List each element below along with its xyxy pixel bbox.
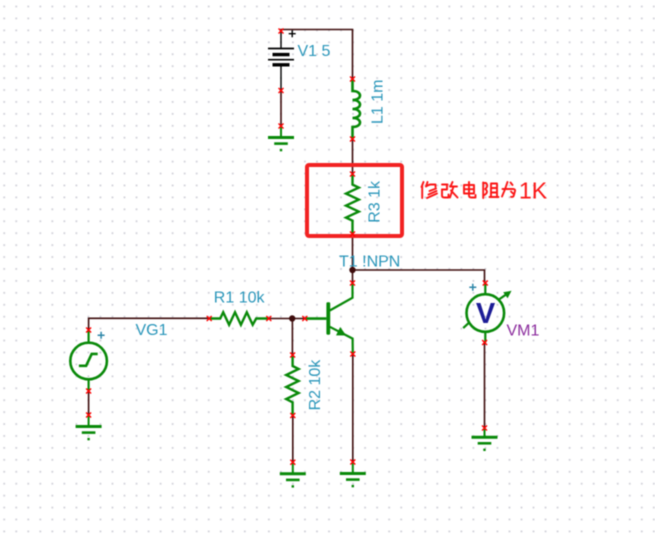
pin ground VM1 bbox=[482, 426, 487, 431]
char dian bbox=[464, 182, 476, 198]
svg-text:R1 10k: R1 10k bbox=[214, 290, 266, 307]
wire VM1 bottom to ground bbox=[484, 343, 486, 429]
battery V1 bbox=[268, 30, 296, 90]
char gai bbox=[442, 182, 458, 198]
svg-text:VG1: VG1 bbox=[136, 322, 168, 339]
pin ground V1 bbox=[279, 124, 284, 129]
ground below VG1 bbox=[76, 415, 102, 440]
pin R2 top bbox=[290, 353, 295, 358]
wire battery bottom to ground bbox=[280, 91, 282, 127]
resistor R1 bbox=[209, 312, 269, 325]
pin ground T1 bbox=[350, 460, 355, 465]
plus VM1 bbox=[469, 284, 476, 291]
svg-text:R2 10k: R2 10k bbox=[307, 359, 324, 411]
junction node base bbox=[289, 315, 295, 321]
pin VG1 bottom bbox=[86, 389, 91, 394]
wire node to R2 top bbox=[291, 319, 293, 356]
resistor R2 bbox=[286, 355, 298, 416]
pin V1 positive bbox=[279, 29, 284, 34]
pin R3 bottom bbox=[350, 232, 355, 237]
pin R2 bottom bbox=[290, 413, 295, 418]
pin ground VG1 bbox=[86, 413, 91, 418]
svg-text:T1 !NPN: T1 !NPN bbox=[339, 254, 400, 271]
ground below R2 bbox=[280, 462, 306, 487]
svg-text:V1 5: V1 5 bbox=[298, 43, 331, 60]
pin ground R2 bbox=[290, 460, 295, 465]
pin T1 base bbox=[302, 316, 307, 321]
pin R3 top bbox=[350, 172, 355, 177]
pin VG1 top bbox=[86, 328, 91, 333]
char zu bbox=[483, 183, 498, 199]
wire R2 bottom to ground bbox=[292, 416, 294, 463]
inductor L1 bbox=[353, 79, 361, 139]
wire R3 bottom to T1 collector bbox=[352, 234, 354, 283]
svg-text:1K: 1K bbox=[519, 178, 548, 204]
junction node collector bbox=[349, 267, 355, 273]
wire R1 right to T1 base bbox=[269, 318, 305, 320]
ground below T1 emitter bbox=[340, 462, 366, 487]
pin L1 bottom bbox=[350, 137, 355, 142]
ground below VM1 bbox=[472, 428, 498, 451]
svg-text:R3 1k: R3 1k bbox=[367, 180, 384, 223]
pin VM1 bottom bbox=[482, 340, 487, 345]
wire VG1 bottom to ground bbox=[88, 391, 90, 415]
generator VG1 bbox=[70, 330, 107, 391]
wire T1 emitter to ground bbox=[352, 354, 354, 462]
wire battery top to L1 top bbox=[281, 30, 353, 80]
transistor T1 bbox=[305, 283, 353, 354]
pin T1 collector bbox=[350, 281, 355, 286]
plus VG1 bbox=[98, 332, 105, 339]
svg-text:VM1: VM1 bbox=[507, 322, 540, 339]
wire VG1 top to R1 left bbox=[89, 318, 210, 330]
char xiu bbox=[422, 182, 438, 198]
pin V1 negative bbox=[279, 88, 284, 93]
wire L1 bottom to R3 top bbox=[352, 139, 354, 174]
svg-text:L1 1m: L1 1m bbox=[370, 80, 387, 124]
voltmeter VM1 bbox=[463, 283, 511, 343]
pin R1 right bbox=[266, 316, 271, 321]
annotation text 1K bbox=[422, 182, 516, 198]
pin T1 emitter bbox=[350, 352, 355, 357]
ground below V1 bbox=[268, 126, 294, 151]
resistor R3 bbox=[346, 174, 359, 234]
svg-text:V: V bbox=[476, 298, 496, 330]
char wei bbox=[502, 182, 515, 197]
pin R1 left bbox=[207, 316, 212, 321]
wire node to VM1 top bbox=[353, 270, 485, 283]
red highlight rectangle bbox=[307, 165, 402, 236]
pin VM1 top bbox=[483, 281, 488, 286]
pin L1 top bbox=[350, 77, 355, 82]
